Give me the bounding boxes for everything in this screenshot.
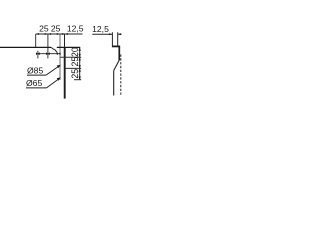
right view flange left edge [111, 32, 113, 45]
svg-text:20: 20 [70, 47, 80, 57]
right view arrow pointing left with tail [118, 33, 122, 35]
leader arrow Ø85 [57, 65, 61, 68]
svg-text:Ø85: Ø85 [27, 66, 43, 76]
plate edge B (left view) [64, 34, 66, 47]
vertical dimension line column [79, 47, 81, 79]
arrow diamond at ext3 [57, 33, 63, 35]
extension stub d1 [60, 56, 81, 58]
svg-text:25: 25 [39, 24, 49, 34]
svg-text:25: 25 [70, 69, 80, 79]
right view flange bottom bar [112, 45, 120, 47]
mark 3 diamond on line A [57, 52, 61, 55]
mark 1 diamond [36, 52, 40, 55]
leader underline Ø85 [27, 74, 46, 76]
right view flange right edge [117, 32, 119, 45]
extension line 2 [47, 34, 49, 58]
right view arrow pointing right [109, 33, 112, 35]
hidden dashed line [120, 55, 122, 96]
long horizontal part line [0, 46, 51, 48]
step diagonal 1 [51, 47, 54, 49]
mark 2 diamond [46, 52, 50, 55]
svg-text:25: 25 [70, 57, 80, 67]
right view upper leg thick [118, 46, 120, 60]
arrow diamond at ext2 [45, 33, 51, 35]
right view dimension line 12.5 [92, 33, 112, 35]
right view bend diagonal [114, 60, 120, 71]
svg-text:Ø65: Ø65 [26, 78, 42, 88]
mark 1 tick [37, 51, 39, 59]
leader underline Ø65 [26, 87, 47, 89]
arrow up top of column [79, 47, 81, 50]
leader line Ø85 [46, 65, 60, 75]
extension line 3 / plate centerline A [59, 34, 61, 80]
arrow left end [36, 33, 39, 35]
leader arrow Ø65 [57, 77, 61, 80]
upper horizontal line right part [57, 46, 80, 48]
svg-text:25: 25 [51, 24, 61, 34]
svg-text:12,5: 12,5 [67, 24, 84, 34]
diamond at d2 [79, 65, 81, 72]
diamond at d1 [79, 54, 81, 61]
step diagonal 2 [55, 49, 58, 52]
extension stub bottom [74, 79, 81, 81]
extension stub d2 [65, 67, 82, 69]
marks connecting line [38, 53, 60, 55]
svg-text:12,5: 12,5 [92, 24, 109, 34]
extension line 1 [35, 34, 37, 48]
arrow down bottom of column [79, 76, 81, 79]
right view lower leg [113, 71, 115, 96]
leader line Ø65 [47, 78, 61, 88]
step segment [54, 48, 55, 50]
dimension line top (left view) [36, 33, 83, 35]
arrow at 12.5 right end [65, 33, 68, 35]
